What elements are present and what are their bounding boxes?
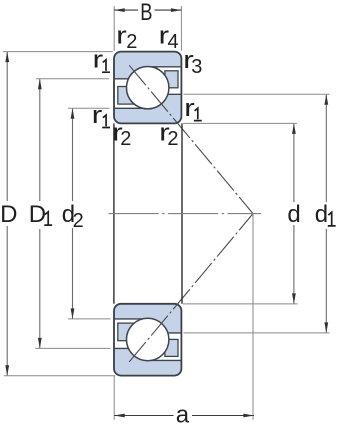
svg-text:r: r (184, 95, 195, 122)
svg-text:r: r (93, 47, 104, 74)
svg-text:2: 2 (73, 210, 84, 232)
svg-text:2: 2 (120, 128, 131, 150)
svg-text:d: d (315, 201, 328, 228)
svg-text:D: D (0, 201, 17, 228)
svg-text:a: a (176, 402, 190, 425)
svg-text:d: d (287, 201, 300, 228)
svg-text:2: 2 (126, 31, 137, 53)
svg-text:r: r (116, 23, 127, 50)
svg-text:2: 2 (167, 128, 178, 150)
svg-text:3: 3 (191, 56, 202, 78)
svg-text:4: 4 (168, 31, 179, 53)
svg-text:D: D (29, 201, 46, 228)
svg-text:r: r (92, 102, 103, 129)
svg-text:B: B (140, 0, 152, 26)
